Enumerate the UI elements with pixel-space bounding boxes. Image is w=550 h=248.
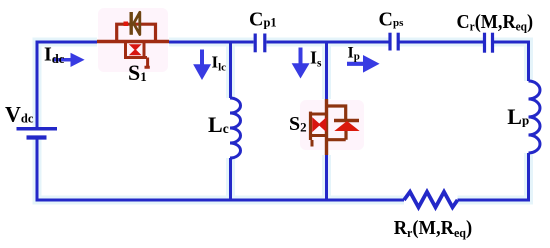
inductor Lp [529,81,541,153]
switch S1 diode D1 cathode bar [129,12,132,35]
svg-text:Cp1: Cp1 [249,8,277,30]
capacitor Cr left plate [483,33,486,53]
capacitor Cps right plate [397,33,400,51]
inductor Lc [230,98,241,158]
wire: left rail below battery to bottom-left corner [36,140,39,199]
wire: top rail S1 to Cp1 [169,41,254,44]
switch S2 drain-source line [325,99,328,155]
switch S2 gate box [311,114,327,136]
switch S1 diode D1 triangle [134,12,140,34]
switch S1 gate stub [145,58,150,69]
wire: branch 2 upper (node B to S2) [325,41,328,100]
current arrow Ilc [194,50,210,80]
switch S2 diode D2 cathode bar [334,119,359,122]
capacitor Cps left plate [388,33,391,51]
switch S1 loop junction dot [124,22,129,27]
wire: branch 2 lower (S2 to bottom rail) [325,155,328,200]
capacitor Cr right plate [491,33,494,53]
wire halo underlay [37,42,529,200]
svg-text:Cps: Cps [379,8,405,30]
switch S1 gate box [124,42,147,58]
resistor Rr zigzag [404,192,458,208]
battery V_dc short plate [27,135,47,139]
switch S1 antiparallel diode loop [117,24,156,41]
svg-text:Is: Is [310,48,322,70]
switch S1 drain-source line [97,40,169,43]
switch S2 channel mark [313,118,326,131]
wire: top-left corner and left rail [36,42,98,127]
svg-text:Cr(M,Req): Cr(M,Req) [457,11,534,33]
capacitor Cp1 left plate [254,34,257,53]
wire: top rail Cr to top-right corner [494,41,531,82]
wire: branch 1 upper (node A to Lc) [229,41,232,99]
switch S1 channel mark [130,45,141,55]
label Cr(M,Req) [457,11,534,33]
svg-text:Lp: Lp [507,104,529,129]
switch S2 diode D2 triangle [337,122,358,130]
svg-text:Idc: Idc [44,44,65,67]
svg-text:Rr(M,Req): Rr(M,Req) [394,217,472,240]
svg-text:Ilc: Ilc [212,53,227,74]
switch S1 halo [98,8,168,72]
capacitor Cp1 right plate [263,34,266,53]
current arrow Is [293,48,309,78]
switch S2 gate bar [309,112,312,140]
wire: branch 1 lower (Lc to bottom rail) [229,158,232,200]
svg-text:Vdc: Vdc [5,102,34,127]
svg-text:Lc: Lc [208,112,229,137]
wire: bottom rail left of resistor [36,199,405,202]
switch S2 halo [300,100,364,150]
wire: top rail Cps to Cr [400,41,484,44]
current arrow Idc [54,54,84,67]
switch S2 antiparallel diode loop [327,106,347,140]
wire: top rail Cp1 to Cps [267,41,389,44]
switch S2 gate stub [311,140,314,147]
battery V_dc long plate [17,127,58,131]
wire: bottom rail right of resistor to bottom-right corner [458,153,531,202]
label Rr(M,Req) [394,217,472,240]
svg-text:Ip: Ip [348,45,360,63]
current arrow Ip [347,56,379,72]
